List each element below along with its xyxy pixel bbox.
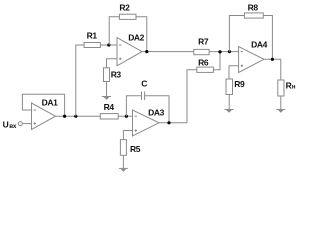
ground under R9 — [225, 110, 234, 113]
ground under R3 — [102, 97, 111, 100]
wire DA2 + to R3 — [107, 59, 118, 68]
svg-text:R4: R4 — [104, 102, 115, 112]
svg-text:DA3: DA3 — [148, 107, 164, 117]
resistor R9 — [226, 79, 233, 95]
wire DA4 output — [264, 58, 281, 60]
wire DA1 feedback — [22, 94, 64, 116]
ground under R5 — [119, 168, 128, 171]
resistor R3 — [104, 68, 110, 82]
wire R8 left leg — [229, 16, 244, 52]
ground under RH — [276, 109, 285, 112]
wire R6 right leg — [213, 52, 220, 70]
svg-text:DA1: DA1 — [42, 97, 58, 107]
svg-text:R5: R5 — [130, 144, 141, 154]
resistor R5 — [120, 140, 126, 156]
node DA3 inverting input — [125, 115, 128, 118]
svg-text:вх: вх — [9, 123, 17, 130]
label RH — [286, 81, 296, 91]
node DA3 output junction — [167, 121, 170, 124]
wire DA3 + to R5 — [123, 131, 132, 140]
wire DA1 output rail — [56, 115, 101, 117]
wire DA3 output — [159, 122, 187, 124]
wire R2 right leg — [136, 17, 147, 52]
wire R9 to ground — [228, 95, 230, 110]
node DA2 output junction — [145, 50, 148, 53]
op-amp DA2 — [117, 38, 142, 66]
wire DA4 + to R9 — [229, 66, 239, 79]
svg-text:R1: R1 — [87, 31, 98, 41]
node DA1 feedback junction — [63, 115, 66, 118]
resistor R2 — [119, 14, 136, 19]
resistor RH — [278, 80, 284, 96]
resistor R6 — [197, 67, 214, 72]
op-amp DA4 — [239, 47, 264, 73]
node DA2 inverting input — [107, 43, 110, 46]
wire R3 to ground — [106, 82, 108, 97]
wire R5 to ground — [122, 155, 124, 168]
node R1 branch junction — [74, 115, 77, 118]
node DA4 output junction — [271, 58, 274, 61]
resistor R7 — [194, 49, 209, 54]
op-amp DA1 — [32, 103, 56, 130]
wire C left leg — [126, 96, 141, 116]
wire RH to ground — [280, 96, 282, 109]
wire R1 branch up — [76, 45, 84, 116]
svg-text:DA4: DA4 — [251, 40, 267, 50]
svg-text:R9: R9 — [234, 79, 245, 89]
op-amp DA3 — [133, 110, 160, 136]
resistor R4 — [100, 114, 118, 119]
svg-text:R6: R6 — [198, 57, 209, 67]
wire R2 left leg — [109, 17, 119, 45]
svg-text:DA2: DA2 — [128, 32, 144, 42]
label Uvx — [3, 120, 17, 130]
wire R8 right leg — [263, 16, 272, 60]
wire R7 to DA4 - — [209, 51, 239, 53]
svg-text:н: н — [292, 84, 296, 91]
wire input to DA1 + — [22, 123, 31, 125]
resistor R1 — [84, 43, 100, 48]
svg-text:R8: R8 — [248, 3, 259, 13]
wire DA4 output to RH — [280, 59, 282, 80]
resistor R8 — [244, 13, 263, 18]
wire DA2 output rail — [142, 51, 194, 53]
svg-text:R7: R7 — [198, 37, 209, 47]
svg-text:R2: R2 — [119, 3, 130, 13]
wire DA3 output to R6 — [187, 70, 197, 123]
svg-text:R3: R3 — [111, 69, 122, 79]
wire R4 to DA3 - — [118, 115, 132, 117]
svg-text:R: R — [286, 81, 292, 91]
svg-text:U: U — [3, 120, 9, 130]
input terminal Uvx — [18, 122, 22, 126]
capacitor C — [142, 92, 145, 101]
svg-text:C: C — [141, 79, 147, 89]
wire C right leg — [145, 96, 169, 123]
node R8 junction — [228, 50, 231, 53]
node R6 junction — [218, 50, 221, 53]
wire R1 to DA2 - — [100, 44, 117, 46]
